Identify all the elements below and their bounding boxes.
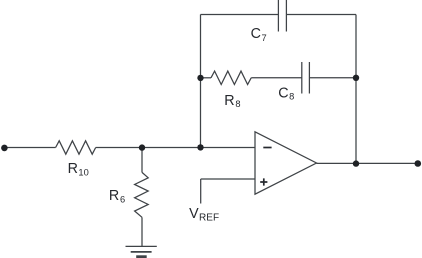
svg-text:C8: C8 bbox=[278, 86, 294, 102]
resistor R6 bbox=[135, 172, 149, 217]
capacitor C7 bbox=[277, 0, 279, 32]
resistor R10 bbox=[56, 141, 96, 154]
wire node B to op-amp inverting input bbox=[201, 147, 256, 149]
wire op-amp noninverting input bbox=[201, 178, 255, 180]
node A junction bbox=[139, 144, 145, 150]
node output terminal bbox=[415, 160, 422, 167]
capacitor C8 bbox=[301, 62, 303, 94]
wire node A down to R6 bbox=[141, 148, 143, 173]
wire VREF vertical bbox=[200, 179, 202, 204]
wire node A to node B bbox=[142, 147, 201, 149]
wire right feedback vertical bbox=[355, 15, 357, 164]
wire node B down branch to R8 bbox=[201, 77, 212, 79]
wire C8 right plate to right vertical bbox=[309, 77, 356, 79]
svg-text:R6: R6 bbox=[109, 188, 125, 204]
op-amp plus sign bbox=[260, 178, 267, 185]
wire op-amp output bbox=[317, 162, 418, 164]
wire left feedback vertical bbox=[200, 15, 202, 148]
wire input to R10 bbox=[5, 147, 56, 149]
wire top to C7 left plate bbox=[201, 14, 279, 16]
svg-text:C7: C7 bbox=[251, 26, 267, 43]
svg-text:R8: R8 bbox=[224, 93, 240, 109]
node input terminal bbox=[1, 145, 8, 152]
node output junction bbox=[353, 160, 359, 166]
svg-text:VREF: VREF bbox=[189, 206, 219, 224]
op-amp minus sign bbox=[263, 147, 271, 149]
resistor R8 bbox=[211, 71, 251, 84]
wire C7 right plate to top right corner bbox=[286, 14, 356, 16]
op-amp U1 bbox=[255, 132, 317, 194]
wire R10 to node A bbox=[96, 147, 142, 149]
wire R8 to C8 left plate bbox=[251, 77, 302, 79]
node B feedback junction bbox=[197, 75, 203, 81]
wire R6 to ground bbox=[141, 217, 143, 246]
node B junction bbox=[197, 144, 203, 150]
svg-text:R10: R10 bbox=[68, 161, 89, 177]
ground bbox=[126, 245, 157, 247]
node C junction bbox=[353, 75, 359, 81]
